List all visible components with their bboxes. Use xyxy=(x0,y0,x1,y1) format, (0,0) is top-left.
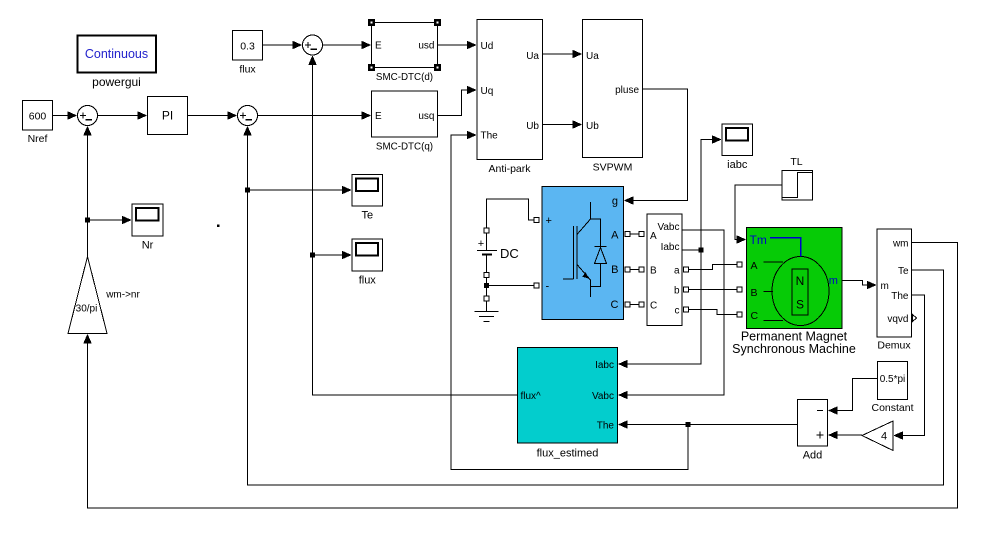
svg-text:600: 600 xyxy=(29,110,47,122)
svg-text:Ud: Ud xyxy=(481,41,494,52)
junction Te branch node xyxy=(245,188,250,193)
svg-text:Te: Te xyxy=(898,266,909,277)
svg-text:A: A xyxy=(650,231,657,242)
svg-text:PI: PI xyxy=(162,109,173,123)
svg-text:TL: TL xyxy=(790,156,802,168)
svg-text:Iabc: Iabc xyxy=(661,242,680,253)
wire junction up to iabc scope xyxy=(701,135,722,250)
svg-text:Vabc: Vabc xyxy=(592,391,614,402)
block powergui (Continuous) xyxy=(78,36,157,90)
svg-text:Nr: Nr xyxy=(142,240,154,252)
junction Nr branch node xyxy=(85,218,90,223)
block three-phase V-I measurement xyxy=(647,214,682,326)
wire Add output to flux_estimed The xyxy=(688,424,798,426)
wire flux constant to Sum3 xyxy=(263,41,303,49)
svg-text:Ub: Ub xyxy=(526,121,539,132)
wire measurement c to PMSM C xyxy=(689,310,737,315)
wire Sum1 feedback vertical from gain 30/pi xyxy=(83,126,91,257)
svg-text:The: The xyxy=(597,421,615,432)
svg-text:Nref: Nref xyxy=(28,133,48,145)
svg-text:flux_estimed: flux_estimed xyxy=(537,448,599,460)
bridge IGBT and diode icon xyxy=(563,202,607,297)
svg-text:flux^: flux^ xyxy=(521,391,542,402)
subsystem block SMC-DTC(d) with selection handles xyxy=(368,19,441,83)
DC voltage source battery xyxy=(477,228,519,283)
wire measurement b to PMSM B xyxy=(689,289,737,291)
wire PMSM m to Demux xyxy=(843,281,877,290)
junction flux branch node xyxy=(310,253,315,258)
measurement port squares xyxy=(639,232,689,313)
wire SVPWM pluse to bridge gate g xyxy=(624,89,688,205)
svg-text:Synchronous Machine: Synchronous Machine xyxy=(732,342,856,356)
svg-text:powergui: powergui xyxy=(92,75,141,89)
svg-text:E: E xyxy=(375,40,382,51)
svg-text:+: + xyxy=(478,238,484,250)
svg-text:flux: flux xyxy=(359,275,377,287)
step block TL xyxy=(782,156,813,200)
wire Demux Te feedback to Sum2 xyxy=(243,126,943,485)
svg-text:m: m xyxy=(829,275,838,287)
svg-text:B: B xyxy=(650,265,657,276)
scope flux xyxy=(352,239,383,287)
svg-text:B: B xyxy=(751,287,758,299)
svg-text:The: The xyxy=(891,291,909,302)
PMSM rotor icon ellipse with N S magnet xyxy=(764,238,830,326)
wire battery to ground xyxy=(484,288,489,312)
junction The branch node xyxy=(686,422,691,427)
svg-text:usq: usq xyxy=(418,111,434,122)
svg-text:A: A xyxy=(611,229,619,241)
block universal bridge inverter (blue) xyxy=(542,187,624,320)
svg-text:Demux: Demux xyxy=(877,340,911,352)
junction Iabc node xyxy=(699,248,704,253)
svg-text:Tm: Tm xyxy=(750,233,767,247)
wire DC plus to bridge + xyxy=(487,199,535,228)
wire measurement Iabc to junction xyxy=(683,249,702,251)
svg-text:30/pi: 30/pi xyxy=(76,304,98,315)
svg-text:C: C xyxy=(650,300,657,311)
svg-text:pluse: pluse xyxy=(615,85,639,96)
svg-text:S: S xyxy=(796,298,804,312)
sum block Sum1 xyxy=(78,106,98,126)
subsystem block SMC-DTC(q) xyxy=(372,91,438,153)
svg-text:B: B xyxy=(611,264,618,276)
svg-text:Ua: Ua xyxy=(586,51,599,62)
svg-text:Vabc: Vabc xyxy=(657,222,679,233)
svg-text:usd: usd xyxy=(418,40,434,51)
wire The branch to Anti-park The xyxy=(451,131,688,470)
svg-text:a: a xyxy=(674,265,680,276)
svg-text:SMC-DTC(d): SMC-DTC(d) xyxy=(376,72,433,83)
subsystem block SVPWM xyxy=(583,20,643,174)
svg-text:Te: Te xyxy=(361,210,373,222)
svg-text:g: g xyxy=(612,195,618,207)
wire Sum3 to SMC-DTC(d) port E xyxy=(323,41,372,49)
PMSM port squares xyxy=(737,262,742,317)
block PI controller xyxy=(148,97,188,135)
svg-text:Ub: Ub xyxy=(586,121,599,132)
svg-text:iabc: iabc xyxy=(727,159,748,171)
svg-text:C: C xyxy=(751,310,759,322)
svg-text:flux: flux xyxy=(239,64,256,76)
block Demux xyxy=(877,229,912,352)
subsystem block flux_estimed (cyan) xyxy=(518,348,618,460)
svg-text:Add: Add xyxy=(803,450,823,462)
wire PI to Sum2 xyxy=(188,111,238,119)
svg-text:wm->nr: wm->nr xyxy=(105,290,140,301)
wire Anti-park Ub to SVPWM Ub xyxy=(543,120,583,128)
svg-text:A: A xyxy=(751,260,758,272)
svg-text:wm: wm xyxy=(892,238,909,249)
scope iabc xyxy=(722,124,753,171)
bridge port squares xyxy=(534,218,630,308)
svg-text:Ua: Ua xyxy=(526,51,539,62)
gain block 30/pi (pointing up) xyxy=(68,257,107,334)
wire DC minus to bridge - xyxy=(489,285,535,287)
svg-text:b: b xyxy=(674,285,680,296)
wire Anti-park Ua to SVPWM Ua xyxy=(543,50,583,58)
gain block 4 (pointing left) xyxy=(862,421,893,451)
constant block 0.5*pi (flipped) xyxy=(871,362,913,415)
annotation dot xyxy=(217,224,220,227)
svg-text:The: The xyxy=(481,131,499,142)
Demux vqvd unconnected output port chevron xyxy=(913,315,917,322)
wire Nref to Sum1 xyxy=(53,111,78,119)
svg-text:0.3: 0.3 xyxy=(240,40,255,52)
wire measurement Vabc to flux_estimed Vabc xyxy=(618,230,724,399)
svg-text:+: + xyxy=(546,215,552,227)
wire bridge C to measurement C xyxy=(630,304,639,306)
wire SMC-DTC(d) usd to Anti-park Ud xyxy=(438,41,477,49)
constant block Nref value 600 xyxy=(23,101,53,146)
svg-text:Uq: Uq xyxy=(481,86,494,97)
scope Te xyxy=(352,175,383,222)
svg-text:c: c xyxy=(675,305,680,316)
wire bridge A to measurement A xyxy=(630,233,639,235)
wire gain 4 to Add plus input xyxy=(828,431,862,439)
sum block Sum2 xyxy=(238,106,258,126)
wire Sum2 to SMC-DTC(q) port E xyxy=(258,111,372,119)
constant block flux value 0.3 xyxy=(233,31,263,76)
subsystem block Anti-park xyxy=(477,20,543,176)
wire Constant to Add minus input xyxy=(828,379,878,415)
wire measurement a to PMSM A xyxy=(689,265,737,270)
svg-text:Iabc: Iabc xyxy=(595,360,614,371)
wire Demux The to gain 4 xyxy=(893,295,924,440)
wire Sum1 to PI xyxy=(98,111,148,119)
ground symbol xyxy=(475,312,499,322)
wire flux_estimed output to Sum3 xyxy=(308,55,517,395)
wire Demux wm feedback to gain 30/pi xyxy=(83,243,957,509)
wire flux branch to flux scope xyxy=(313,251,352,259)
junction DC negative node xyxy=(484,283,489,288)
wire The into flux_estimed port xyxy=(618,420,688,428)
scope Nr xyxy=(132,204,163,252)
svg-text:E: E xyxy=(375,111,382,122)
svg-text:N: N xyxy=(796,274,805,288)
wire junction down to flux_estimed Iabc xyxy=(618,250,701,368)
wire Te branch to Te scope xyxy=(248,186,352,194)
svg-text:C: C xyxy=(611,299,619,311)
block Add (flipped) xyxy=(798,400,828,462)
svg-text:-: - xyxy=(546,281,550,293)
svg-text:Anti-park: Anti-park xyxy=(488,163,531,175)
wire Nr branch to Nr scope xyxy=(88,216,132,224)
svg-text:SVPWM: SVPWM xyxy=(593,162,633,174)
svg-text:m: m xyxy=(881,281,889,292)
svg-text:vqvd: vqvd xyxy=(887,314,908,325)
svg-text:4: 4 xyxy=(881,431,887,443)
wire bridge B to measurement B xyxy=(630,269,639,271)
svg-text:Continuous: Continuous xyxy=(85,47,148,61)
wire TL to PMSM Tm xyxy=(735,185,782,244)
svg-text:DC: DC xyxy=(500,246,519,261)
wire SMC-DTC(q) usq to Anti-park Uq xyxy=(438,86,477,116)
svg-text:SMC-DTC(q): SMC-DTC(q) xyxy=(376,142,433,153)
block Permanent Magnet Synchronous Machine (green) xyxy=(732,228,856,357)
sum block Sum3 xyxy=(303,35,323,55)
svg-text:0.5*pi: 0.5*pi xyxy=(880,374,906,385)
svg-text:Constant: Constant xyxy=(871,402,913,414)
